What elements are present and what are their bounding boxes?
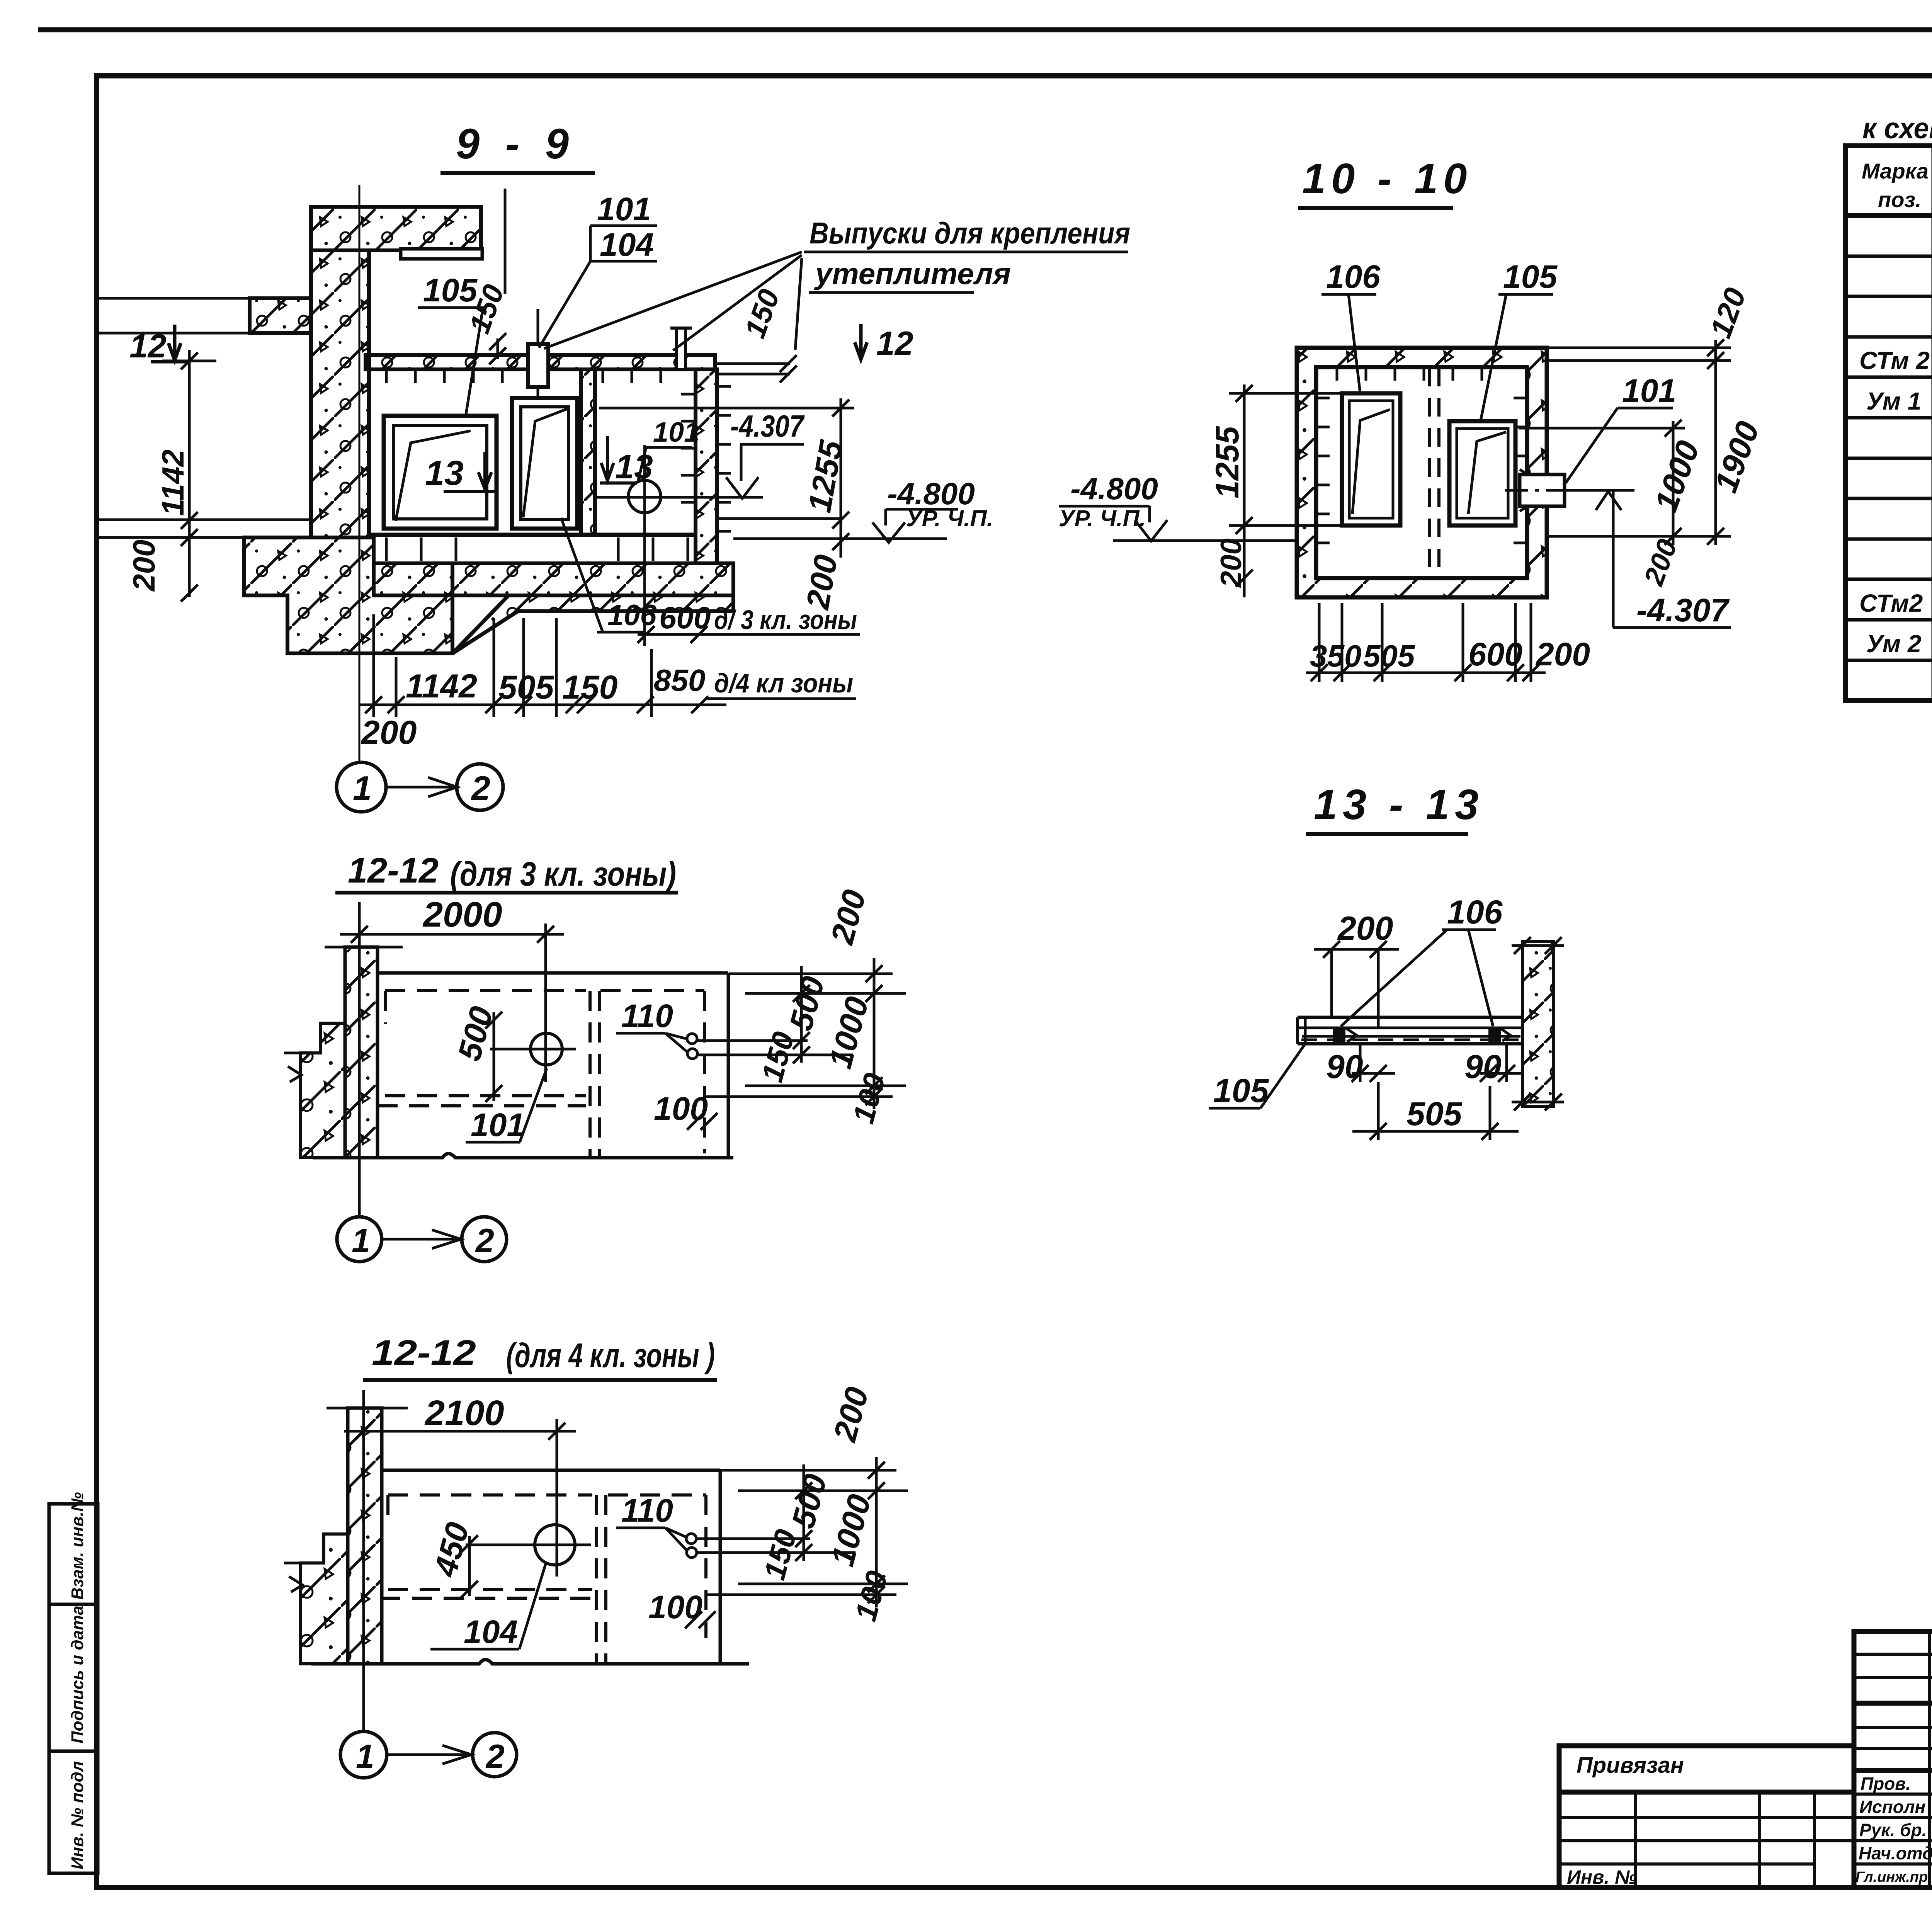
svg-text:Пров.: Пров. <box>1861 1774 1911 1794</box>
svg-text:105: 105 <box>423 272 478 308</box>
svg-text:101: 101 <box>653 417 699 448</box>
svg-text:1: 1 <box>356 1738 374 1775</box>
svg-text:д/ 3 кл. зоны: д/ 3 кл. зоны <box>714 605 857 635</box>
svg-text:150: 150 <box>562 669 618 706</box>
svg-text:505: 505 <box>1363 639 1415 673</box>
svg-text:(для 3 кл. зоны): (для 3 кл. зоны) <box>450 855 676 893</box>
svg-text:101: 101 <box>471 1107 525 1143</box>
svg-text:106: 106 <box>1447 894 1503 931</box>
svg-text:106: 106 <box>1326 259 1381 295</box>
svg-text:104: 104 <box>600 226 654 263</box>
svg-text:Выпуски для крепления: Выпуски для крепления <box>810 216 1130 250</box>
svg-text:9 - 9: 9 - 9 <box>456 120 576 168</box>
svg-text:(для 4 кл. зоны ): (для 4 кл. зоны ) <box>506 1336 715 1374</box>
svg-text:200: 200 <box>361 714 417 751</box>
svg-text:2: 2 <box>475 1222 494 1259</box>
svg-text:Взам. инв.№: Взам. инв.№ <box>68 1492 87 1600</box>
svg-text:90: 90 <box>1326 1048 1363 1085</box>
svg-text:106: 106 <box>607 599 657 632</box>
svg-text:200: 200 <box>127 540 161 592</box>
svg-text:110: 110 <box>621 1492 673 1529</box>
svg-text:Инв. №: Инв. № <box>1567 1866 1637 1888</box>
svg-text:850: 850 <box>654 663 705 697</box>
svg-text:2: 2 <box>471 769 490 807</box>
svg-text:505: 505 <box>1406 1095 1463 1133</box>
svg-text:1: 1 <box>353 769 372 807</box>
svg-text:Ум 2: Ум 2 <box>1866 630 1921 658</box>
svg-text:1142: 1142 <box>406 668 477 705</box>
svg-text:13: 13 <box>425 454 464 493</box>
svg-text:-4.307: -4.307 <box>730 409 805 443</box>
svg-text:-4.800: -4.800 <box>1070 471 1158 506</box>
svg-text:УР. Ч.П.: УР. Ч.П. <box>1059 505 1146 531</box>
svg-text:д/4 кл зоны: д/4 кл зоны <box>714 668 853 698</box>
svg-text:Подпись и дата: Подпись и дата <box>68 1605 87 1743</box>
svg-text:утеплителя: утеплителя <box>814 257 1011 291</box>
svg-text:Исполн: Исполн <box>1859 1797 1925 1817</box>
svg-text:13 - 13: 13 - 13 <box>1314 781 1484 828</box>
svg-text:505: 505 <box>498 669 554 706</box>
svg-text:101: 101 <box>1622 372 1676 409</box>
svg-text:Марка: Марка <box>1862 159 1929 183</box>
svg-text:СТм2: СТм2 <box>1859 589 1923 617</box>
svg-text:Привязан: Привязан <box>1577 1753 1684 1778</box>
svg-text:Рук. бр.: Рук. бр. <box>1859 1820 1927 1840</box>
svg-text:Инв. № подл: Инв. № подл <box>68 1761 87 1869</box>
svg-text:-4.307: -4.307 <box>1636 592 1730 628</box>
svg-text:Нач.отд.: Нач.отд. <box>1859 1843 1932 1863</box>
svg-text:поз.: поз. <box>1878 187 1922 212</box>
svg-text:10 - 10: 10 - 10 <box>1302 155 1472 202</box>
svg-text:12: 12 <box>876 325 913 362</box>
svg-text:200: 200 <box>1215 538 1248 588</box>
svg-text:12: 12 <box>129 328 167 365</box>
svg-text:12-12: 12-12 <box>348 851 439 890</box>
svg-text:105: 105 <box>1213 1072 1269 1109</box>
svg-text:12-12: 12-12 <box>372 1333 476 1372</box>
svg-text:1255: 1255 <box>1209 426 1245 498</box>
svg-text:1: 1 <box>352 1222 370 1259</box>
svg-text:200: 200 <box>1535 636 1590 672</box>
svg-text:1142: 1142 <box>156 449 190 516</box>
svg-text:350: 350 <box>1310 639 1361 673</box>
svg-text:Гл.инж.пр: Гл.инж.пр <box>1855 1869 1928 1885</box>
svg-text:105: 105 <box>1503 259 1558 295</box>
svg-text:110: 110 <box>621 998 673 1034</box>
svg-text:к схемам расположения элементо: к схемам расположения элементов фрагмент… <box>1862 112 1932 145</box>
svg-text:101: 101 <box>597 191 651 227</box>
svg-text:2000: 2000 <box>422 895 502 934</box>
svg-text:СТм 2: СТм 2 <box>1859 347 1930 374</box>
svg-text:2100: 2100 <box>424 1393 504 1433</box>
svg-text:100: 100 <box>654 1090 708 1127</box>
svg-text:2: 2 <box>485 1738 505 1775</box>
svg-text:600: 600 <box>1468 636 1522 672</box>
svg-text:Ум 1: Ум 1 <box>1866 387 1921 415</box>
svg-text:104: 104 <box>464 1614 518 1650</box>
